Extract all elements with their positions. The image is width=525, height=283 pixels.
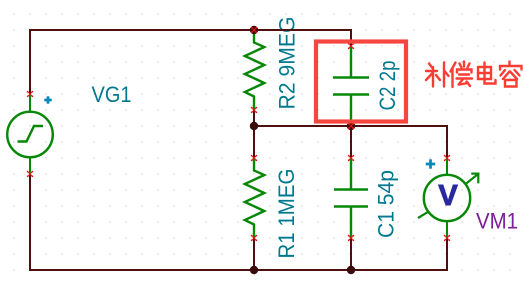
wire R1 bottom to ground rail	[253, 238, 255, 270]
svg-text:VG1: VG1	[92, 82, 132, 107]
svg-text:V: V	[438, 180, 458, 212]
terminal x mark R1 bottom pin (254,238)	[251, 235, 257, 241]
capacitor C1 (parallel plates)	[334, 158, 368, 238]
annotation hanzi DIAN	[478, 63, 496, 84]
resistor R1 (zigzag)	[245, 158, 264, 238]
wire C2 bottom node to C1 top	[350, 126, 352, 158]
annotation hanzi RONG	[500, 62, 522, 87]
wire R2 bottom through node B to R1 top	[253, 110, 255, 158]
terminal x mark R2 top pin (254,30)	[251, 27, 257, 33]
terminal x mark VM1 minus pin (447,238)	[444, 235, 450, 241]
svg-text:R1 1MEG: R1 1MEG	[274, 169, 299, 259]
terminal x mark R2 bottom pin (254,110)	[251, 107, 257, 113]
terminal x mark VG1 plus pin (30,94)	[27, 91, 33, 97]
VG1 plus polarity mark	[44, 96, 51, 103]
junction node B (R2 bottom / middle rail / R1 top)	[250, 122, 258, 130]
wire VG1 bottom down and along bottom ground rail	[30, 174, 447, 270]
junction R1 bottom on ground rail	[250, 266, 258, 274]
terminal x mark C2 top pin (351,46)	[348, 43, 354, 49]
wire middle rail node B to VM1 top	[254, 126, 447, 158]
annotation hanzi BU (of 补偿电容 "compensation capacitor")	[426, 63, 449, 87]
svg-text:VM1: VM1	[476, 208, 518, 233]
terminal x mark VG1 minus pin (30,174)	[27, 171, 33, 177]
wire C1 bottom to ground rail	[350, 238, 352, 270]
junction node C (C2 bottom / middle rail / C1 top)	[347, 122, 355, 130]
terminal x mark C2 bottom pin (351,126)	[348, 123, 354, 129]
terminal x mark C1 top pin (351,158)	[348, 155, 354, 161]
resistor R2 (zigzag)	[245, 30, 264, 110]
capacitor C2 (parallel plates)	[333, 46, 369, 126]
voltage generator VG1 (circle with step waveform)	[7, 94, 53, 174]
voltmeter VM1 (circle with arrow)	[418, 158, 479, 238]
terminal x mark C1 bottom pin (351,238)	[348, 235, 354, 241]
annotation hanzi CHANG	[451, 62, 473, 88]
junction C1 bottom on ground rail	[347, 266, 355, 274]
terminal x mark R1 top pin (254,158)	[251, 155, 257, 161]
svg-text:C2 2p: C2 2p	[375, 61, 400, 111]
wire top rail overdraw across R2 label	[270, 29, 310, 31]
svg-text:C1 54p: C1 54p	[374, 170, 399, 238]
VM1 plus polarity mark	[426, 159, 435, 168]
junction node A (top rail / R2 / C2 branch)	[250, 26, 258, 34]
wire VG1 top to node A along top rail, drops to C2 top	[30, 30, 351, 94]
terminal x mark VM1 plus pin (447,158)	[444, 155, 450, 161]
wire VM1 bottom to ground rail	[446, 238, 448, 271]
red highlight box around C2	[316, 42, 406, 122]
